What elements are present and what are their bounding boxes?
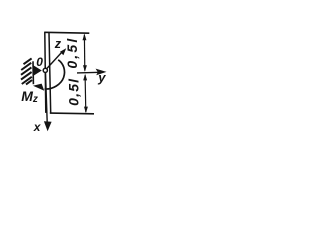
svg-text:0,5l: 0,5l: [64, 37, 80, 69]
svg-text:z: z: [54, 37, 62, 51]
svg-text:x: x: [33, 120, 42, 134]
svg-text:y: y: [97, 70, 106, 85]
svg-text:0,5l: 0,5l: [65, 78, 81, 106]
svg-text:0: 0: [36, 55, 43, 69]
svg-text:Mz: Mz: [21, 88, 38, 105]
